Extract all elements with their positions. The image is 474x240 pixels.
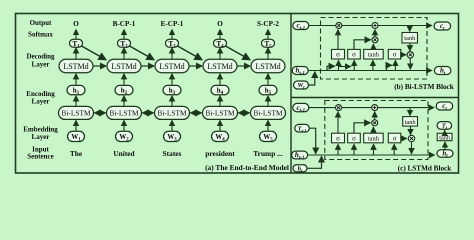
svg-text:σ: σ xyxy=(352,134,356,142)
svg-text:Softmax: Softmax xyxy=(28,31,53,39)
arrow BiLSTM4 to h4 xyxy=(219,96,221,107)
oval h2 xyxy=(115,85,133,94)
svg-text:O: O xyxy=(217,20,223,28)
svg-text:tanh: tanh xyxy=(405,119,417,126)
svg-text:B-CP-1: B-CP-1 xyxy=(113,20,136,28)
arrow T2 to output label xyxy=(123,30,125,40)
arrow LSTMd4 to T4 xyxy=(219,48,221,59)
wire sigma2 to mult2 c xyxy=(354,123,370,133)
oval W4 xyxy=(212,131,229,141)
svg-text:Layer: Layer xyxy=(32,133,50,141)
arrow BiLSTM2 to h2 xyxy=(123,96,125,107)
oval T_t-1 input c xyxy=(295,124,310,132)
svg-text:LSTMd: LSTMd xyxy=(111,62,136,71)
arrow T5 to output label xyxy=(267,30,269,40)
oval h5 xyxy=(259,85,277,94)
oval W_t input b xyxy=(294,81,309,89)
oval h3 xyxy=(163,85,181,94)
oval h_t output b xyxy=(434,67,451,75)
oval T4 xyxy=(214,39,227,47)
mult circle 2 b xyxy=(372,37,378,43)
oval T2 xyxy=(118,39,131,47)
svg-text:LSTMd: LSTMd xyxy=(255,62,280,71)
arrow T1 to output label xyxy=(75,30,77,40)
svg-text:σ: σ xyxy=(352,51,356,59)
wire sigma1 to mult1 b xyxy=(337,30,339,50)
svg-text:σ: σ xyxy=(393,51,397,59)
feeder arrow to sigma2 b xyxy=(339,66,351,68)
oval c_t output c xyxy=(436,102,453,110)
double arrow BiLSTM3 BiLSTM4 xyxy=(191,112,202,114)
svg-text:United: United xyxy=(113,149,135,158)
add circle b xyxy=(372,23,378,29)
sigma box 3 b xyxy=(388,49,401,59)
oval LSTMd1 xyxy=(59,59,93,72)
oval BiLSTM3 xyxy=(155,106,190,119)
outer frame xyxy=(16,14,459,174)
arrow h4 to LSTMd4 xyxy=(219,74,221,86)
svg-text:σ: σ xyxy=(393,134,397,142)
svg-text:E-CP-1: E-CP-1 xyxy=(161,20,184,28)
wire h_t to tanh c xyxy=(444,142,446,150)
divider horizontal between panel b and c xyxy=(291,97,459,99)
oval W3 xyxy=(164,131,181,141)
divider vertical between panel a and b/c xyxy=(290,14,292,174)
svg-text:Sentence: Sentence xyxy=(27,153,53,161)
mult circle 1 b xyxy=(336,23,342,29)
wire hline up to gate b xyxy=(372,60,374,70)
oval LSTMd4 xyxy=(203,59,237,72)
svg-text:Output: Output xyxy=(30,19,52,27)
arrow LSTMd1 to LSTMd2 xyxy=(93,65,106,67)
sigma box 1 b xyxy=(332,49,345,59)
svg-text:LSTMd: LSTMd xyxy=(159,62,184,71)
arrow W2 to BiLSTM2 xyxy=(123,120,125,131)
c line panel b xyxy=(309,25,432,27)
arrow W1 to BiLSTM1 xyxy=(75,120,77,131)
mult circle 1 c xyxy=(336,105,342,111)
wire tanh2 to mult3 c xyxy=(410,126,412,135)
svg-text:(c) LSTMd Block: (c) LSTMd Block xyxy=(398,165,452,173)
arrow LSTMd2 to LSTMd3 xyxy=(141,65,154,67)
svg-text:Decoding: Decoding xyxy=(27,53,56,61)
oval W2 xyxy=(116,131,133,141)
oval h_t-1 input b xyxy=(292,67,308,75)
wire hline up to gate b xyxy=(338,60,340,70)
svg-text:Bi-LSTM: Bi-LSTM xyxy=(253,109,283,118)
svg-text:tanh: tanh xyxy=(439,134,451,141)
h line panel b xyxy=(307,70,432,72)
oval BiLSTM4 xyxy=(203,106,238,119)
wire tanh1 to mult2 b xyxy=(372,44,374,49)
wire T_t-1 join c xyxy=(309,128,315,154)
arrow T3 to output label xyxy=(171,30,173,40)
arrow h3 to LSTMd3 xyxy=(171,74,173,86)
arrow LSTMd3 to LSTMd4 xyxy=(189,65,202,67)
double arrow BiLSTM1 BiLSTM2 xyxy=(95,112,106,114)
sigma box 3 c xyxy=(388,133,401,143)
oval T5 xyxy=(262,39,275,47)
wire hline up to gate c xyxy=(353,144,355,155)
oval LSTMd5 xyxy=(251,59,285,72)
oval c_t-1 input c xyxy=(293,103,309,111)
arrow W5 to BiLSTM5 xyxy=(267,120,269,131)
wire sigma1 to mult1 c xyxy=(337,112,339,133)
oval T3 xyxy=(166,39,179,47)
svg-text:(b) Bi-LSTM Block: (b) Bi-LSTM Block xyxy=(394,83,454,91)
diagonal arrow T1 to LSTMd2 xyxy=(82,46,107,60)
arrow LSTMd3 to T3 xyxy=(171,48,173,59)
mult circle 3 b xyxy=(407,52,413,58)
tanh box output c xyxy=(437,133,452,140)
svg-text:tanh: tanh xyxy=(368,52,380,59)
svg-text:O: O xyxy=(73,20,79,28)
diagonal arrow T2 to LSTMd3 xyxy=(130,46,155,60)
oval h_t output c xyxy=(437,150,453,158)
c line panel c xyxy=(309,107,434,109)
sigma box 1 c xyxy=(332,133,345,143)
svg-text:Layer: Layer xyxy=(32,98,50,106)
double arrow BiLSTM2 BiLSTM3 xyxy=(143,112,154,114)
diagonal arrow T4 to LSTMd5 xyxy=(226,46,251,60)
mult circle 3 c xyxy=(408,135,414,141)
sigma box 2 b xyxy=(348,49,361,59)
svg-text:S-CP-2: S-CP-2 xyxy=(257,20,279,28)
wire mult3 to hline c xyxy=(411,142,413,154)
svg-text:LSTMd: LSTMd xyxy=(207,62,232,71)
oval BiLSTM2 xyxy=(107,106,142,119)
arrow T4 to output label xyxy=(219,30,221,40)
wire h_t join c xyxy=(307,156,322,168)
oval h_t-1 input c xyxy=(292,151,308,159)
arrow h5 to LSTMd5 xyxy=(267,74,269,86)
wire cline to tanh2 b xyxy=(409,26,411,32)
diagonal arrow T3 to LSTMd4 xyxy=(178,46,203,60)
wire tanh to T_t c xyxy=(444,130,446,133)
arrow LSTMd5 to T5 xyxy=(267,48,269,59)
wire sigma3 to mult3 c xyxy=(401,138,407,140)
h line panel c xyxy=(307,154,434,156)
svg-text:Bi-LSTM: Bi-LSTM xyxy=(205,109,235,118)
oval c_t-1 input b xyxy=(293,22,309,30)
wire tanh1 to mult2 c xyxy=(372,127,374,133)
wire hline up to gate c xyxy=(373,144,375,155)
tanh box 1 b xyxy=(364,49,384,59)
oval T1 xyxy=(70,39,83,47)
wire mult2 to add b xyxy=(374,30,376,37)
svg-text:States: States xyxy=(163,149,182,158)
wire hline up to gate c xyxy=(337,144,339,155)
svg-text:(a) The End-to-End Model: (a) The End-to-End Model xyxy=(205,163,289,172)
tanh box 2 c xyxy=(403,117,418,127)
dashed cell boundary panel c xyxy=(325,101,428,160)
tanh box 2 b xyxy=(402,33,418,44)
wire hline up to gate b xyxy=(353,60,355,70)
sigma box 2 c xyxy=(348,133,361,143)
svg-text:σ: σ xyxy=(336,51,340,59)
svg-text:tanh: tanh xyxy=(368,135,380,142)
oval BiLSTM5 xyxy=(251,106,286,119)
feeder elbow to sigma3 b xyxy=(387,65,392,70)
dashed cell boundary panel b xyxy=(321,18,428,80)
wire cline to tanh2 c xyxy=(409,108,411,116)
svg-text:Bi-LSTM: Bi-LSTM xyxy=(61,109,91,118)
svg-text:tanh: tanh xyxy=(404,35,416,42)
arrow W3 to BiLSTM3 xyxy=(171,120,173,131)
oval W1 xyxy=(68,131,85,141)
svg-text:σ: σ xyxy=(336,134,340,142)
wire mult3 to hline b xyxy=(409,58,411,69)
wire hline up to gate c xyxy=(393,144,395,155)
wire W_t join b xyxy=(309,72,315,85)
oval W5 xyxy=(260,131,277,141)
mult circle 2 c xyxy=(372,120,378,126)
oval c_t output b xyxy=(434,22,451,30)
arrow LSTMd4 to LSTMd5 xyxy=(237,65,250,67)
arrow h2 to LSTMd2 xyxy=(123,74,125,86)
arrow BiLSTM1 to h1 xyxy=(75,96,77,107)
oval h1 xyxy=(67,85,85,94)
svg-text:Trump ...: Trump ... xyxy=(253,149,283,158)
arrow LSTMd2 to T2 xyxy=(123,48,125,59)
arrow LSTMd1 to T1 xyxy=(75,48,77,59)
oval LSTMd3 xyxy=(155,59,189,72)
oval LSTMd2 xyxy=(107,59,141,72)
oval h_t input c xyxy=(293,165,307,172)
oval h4 xyxy=(211,85,229,94)
wire sigma3 to mult3 b xyxy=(401,54,406,56)
double arrow BiLSTM4 BiLSTM5 xyxy=(239,112,250,114)
svg-text:president: president xyxy=(205,149,235,158)
arrow h1 to LSTMd1 xyxy=(75,74,77,86)
svg-text:Bi-LSTM: Bi-LSTM xyxy=(109,109,139,118)
oval BiLSTM1 xyxy=(59,106,94,119)
arrow BiLSTM5 to h5 xyxy=(267,96,269,107)
svg-text:Bi-LSTM: Bi-LSTM xyxy=(157,109,187,118)
svg-text:Layer: Layer xyxy=(32,61,50,69)
oval T_t output c xyxy=(437,122,452,130)
wire mult2 to add c xyxy=(374,112,376,120)
wire hline up to gate b xyxy=(394,60,396,70)
tanh box 1 c xyxy=(364,133,384,143)
arrow BiLSTM3 to h3 xyxy=(171,96,173,107)
svg-text:LSTMd: LSTMd xyxy=(63,62,88,71)
arrow W4 to BiLSTM4 xyxy=(219,120,221,131)
svg-text:The: The xyxy=(70,149,83,158)
add circle c xyxy=(372,105,378,111)
wire sigma2 to mult2 b xyxy=(354,40,371,50)
feeder elbow to sigma1 b xyxy=(327,66,335,70)
wire tanh2 to mult3 b xyxy=(409,43,411,51)
